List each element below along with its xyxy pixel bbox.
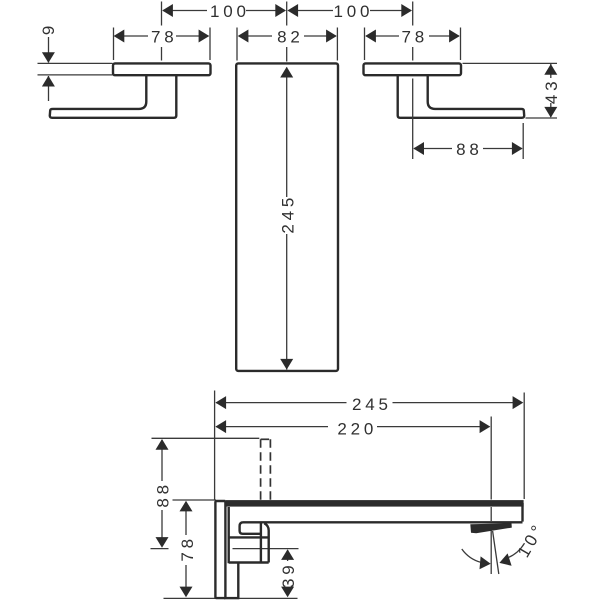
svg-text:88: 88 — [153, 481, 172, 508]
svg-text:78: 78 — [151, 27, 178, 46]
svg-text:100: 100 — [334, 2, 374, 21]
svg-text:82: 82 — [277, 27, 304, 46]
svg-text:78: 78 — [178, 535, 197, 562]
svg-text:78: 78 — [402, 27, 429, 46]
svg-text:100: 100 — [210, 2, 250, 21]
svg-text:39: 39 — [279, 562, 298, 589]
svg-text:88: 88 — [456, 140, 483, 159]
svg-text:245: 245 — [279, 194, 298, 234]
svg-text:220: 220 — [337, 419, 377, 438]
svg-text:9: 9 — [39, 22, 58, 35]
svg-text:245: 245 — [352, 395, 392, 414]
svg-text:43: 43 — [542, 78, 561, 105]
